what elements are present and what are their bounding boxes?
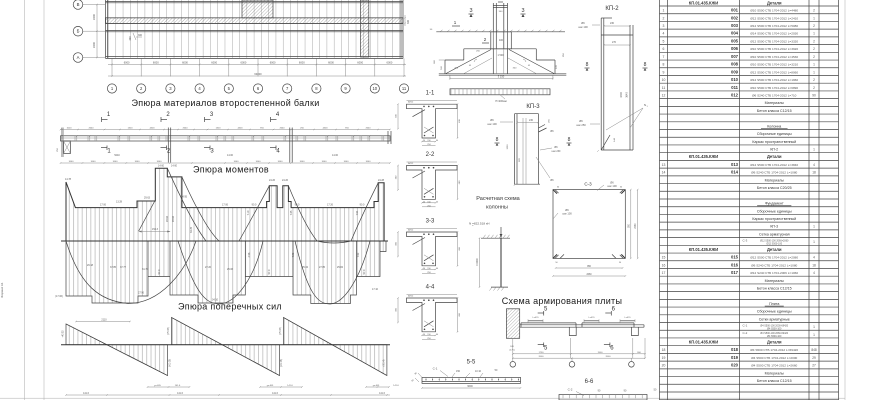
svg-text:90.0: 90.0: [295, 203, 300, 206]
svg-text:1040: 1040: [157, 161, 163, 163]
svg-text:шаг 100: шаг 100: [562, 212, 572, 216]
svg-text:1040: 1040: [322, 161, 328, 163]
svg-text:90.0: 90.0: [360, 203, 365, 206]
svg-text:2: 2: [813, 39, 815, 43]
svg-text:2: 2: [813, 47, 815, 51]
svg-text:Бетон класса С12/15: Бетон класса С12/15: [757, 286, 792, 290]
svg-text:1040: 1040: [256, 161, 262, 163]
svg-text:010: 010: [731, 77, 739, 82]
svg-text:Эпюра моментов: Эпюра моментов: [193, 165, 269, 175]
svg-text:Ø6: Ø6: [610, 181, 614, 185]
svg-text:3Ø12: 3Ø12: [408, 296, 414, 298]
svg-text:Материалы: Материалы: [765, 178, 785, 182]
svg-text:3640: 3640: [626, 92, 629, 98]
svg-text:+43.52: +43.52: [63, 330, 65, 338]
svg-text:10: 10: [662, 78, 666, 82]
svg-text:7.92: 7.92: [292, 252, 295, 257]
svg-text:013: 013: [731, 162, 739, 167]
svg-text:4.58: 4.58: [248, 252, 251, 257]
svg-text:П=200мм: П=200мм: [495, 99, 506, 103]
svg-text:7.92: 7.92: [357, 252, 360, 257]
svg-text:Ø4 S500 СТБ 1704-2012 L=2000: Ø4 S500 СТБ 1704-2012 L=2000: [751, 356, 797, 360]
svg-text:97.0: 97.0: [363, 269, 366, 274]
svg-text:Ø4 S500-100: Ø4 S500-100: [767, 335, 782, 338]
svg-text:14.78: 14.78: [65, 178, 72, 181]
svg-text:Материалы: Материалы: [765, 371, 785, 375]
svg-text:8: 8: [663, 63, 665, 67]
svg-text:007: 007: [731, 54, 739, 59]
svg-text:Ø6 S240 СТБ 1704-2012 L=710: Ø6 S240 СТБ 1704-2012 L=710: [752, 93, 797, 97]
svg-text:11: 11: [402, 86, 407, 91]
svg-text:Ø6: Ø6: [490, 118, 494, 122]
svg-text:001: 001: [731, 8, 739, 13]
svg-text:уч.405: уч.405: [154, 385, 161, 387]
svg-text:уч.405: уч.405: [373, 385, 380, 387]
svg-text:3-3: 3-3: [426, 219, 435, 225]
svg-text:8: 8: [496, 137, 499, 143]
svg-text:Ø12 S500 СТБ 1704-2012 L=1960: Ø12 S500 СТБ 1704-2012 L=1960: [750, 78, 798, 82]
svg-text:С-3: С-3: [743, 238, 748, 242]
svg-text:15: 15: [662, 256, 666, 260]
svg-text:3: 3: [469, 8, 472, 14]
svg-text:(-61.4): (-61.4): [384, 359, 386, 366]
svg-text:64000: 64000: [254, 72, 262, 76]
svg-text:27.96: 27.96: [138, 292, 145, 295]
svg-text:Ø12 S500 СТБ 1704-2012 L=2410: Ø12 S500 СТБ 1704-2012 L=2410: [750, 16, 798, 20]
svg-text:4: 4: [663, 32, 665, 36]
svg-text:300: 300: [407, 19, 410, 24]
svg-text:Ø12 S240 СТБ 1704-2006 L=1060: Ø12 S240 СТБ 1704-2006 L=1060: [750, 271, 798, 275]
svg-text:8: 8: [568, 137, 571, 143]
svg-text:005: 005: [731, 38, 739, 43]
svg-text:18: 18: [662, 348, 666, 352]
svg-text:004: 004: [731, 31, 739, 36]
svg-text:26.18: 26.18: [87, 264, 94, 267]
svg-text:270: 270: [612, 41, 617, 44]
svg-text:Ø10 S500 СТБ 1704-2012 L=3920: Ø10 S500 СТБ 1704-2012 L=3920: [750, 47, 798, 51]
svg-text:Ø12 S500 СТБ 1704-2012 L=2080: Ø12 S500 СТБ 1704-2012 L=2080: [750, 256, 798, 260]
svg-text:150: 150: [456, 370, 461, 373]
svg-text:Ø4 S500 СТБ 1704-2012 L=69420: Ø4 S500 СТБ 1704-2012 L=69420: [750, 348, 798, 352]
svg-text:13: 13: [662, 163, 666, 167]
svg-text:Детали: Детали: [767, 154, 782, 159]
svg-text:2110: 2110: [101, 318, 107, 321]
svg-text:33.78: 33.78: [190, 226, 193, 233]
svg-text:шаг 100: шаг 100: [607, 184, 617, 188]
svg-text:141.6: 141.6: [272, 393, 278, 395]
svg-text:шаг 100: шаг 100: [487, 122, 497, 126]
svg-text:1040: 1040: [344, 161, 350, 163]
svg-text:27.20: 27.20: [205, 266, 212, 269]
svg-text:Ø4 S500 СТБ 1704-2012 L=2660: Ø4 S500 СТБ 1704-2012 L=2660: [751, 364, 797, 368]
svg-text:1: 1: [813, 325, 815, 329]
svg-text:1040: 1040: [366, 161, 372, 163]
svg-text:9: 9: [663, 70, 665, 74]
svg-text:37.85: 37.85: [110, 266, 117, 269]
svg-text:КП-2: КП-2: [770, 148, 778, 152]
svg-text:230: 230: [610, 22, 615, 25]
svg-text:Сборочные единицы: Сборочные единицы: [757, 209, 792, 213]
svg-text:3400: 3400: [92, 13, 96, 20]
svg-text:6000: 6000: [299, 61, 305, 65]
svg-text:Эпюра материалов второстепенно: Эпюра материалов второстепенной балки: [131, 98, 319, 108]
svg-text:шаг 250: шаг 250: [576, 123, 586, 127]
svg-text:(170): (170): [509, 350, 514, 352]
svg-text:17.26: 17.26: [327, 203, 334, 206]
svg-text:3Ø12: 3Ø12: [408, 102, 414, 104]
svg-text:24.26: 24.26: [282, 179, 289, 182]
svg-text:С-2: С-2: [743, 331, 748, 335]
svg-text:2: 2: [663, 16, 665, 20]
svg-text:154.3: 154.3: [152, 228, 159, 231]
svg-text:006: 006: [731, 46, 739, 51]
svg-text:Фундамент: Фундамент: [765, 202, 784, 206]
svg-text:14.95: 14.95: [181, 196, 188, 199]
svg-text:14.60: 14.60: [171, 165, 178, 168]
svg-text:008: 008: [731, 62, 739, 67]
svg-text:3400: 3400: [620, 92, 623, 98]
svg-text:11: 11: [662, 86, 666, 90]
svg-text:400: 400: [499, 39, 504, 42]
svg-text:(75.08): (75.08): [168, 327, 170, 335]
svg-text:016: 016: [731, 262, 739, 267]
svg-text:С-3: С-3: [584, 182, 592, 187]
svg-text:8: 8: [644, 62, 647, 68]
svg-text:6000: 6000: [270, 61, 276, 65]
svg-text:14.00: 14.00: [227, 154, 234, 157]
svg-text:4: 4: [813, 271, 815, 275]
svg-text:Ø12 S500 СТБ 1704-2012 L=8060: Ø12 S500 СТБ 1704-2012 L=8060: [750, 70, 798, 74]
svg-text:1-1: 1-1: [426, 91, 435, 97]
svg-text:Ø10 S500 СТБ 1704-2012 L=3210: Ø10 S500 СТБ 1704-2012 L=3210: [750, 63, 798, 67]
svg-text:Эпюра поперечных сил: Эпюра поперечных сил: [178, 302, 282, 312]
svg-text:1: 1: [813, 32, 815, 36]
svg-text:2-2: 2-2: [426, 152, 435, 158]
svg-text:300: 300: [138, 34, 143, 37]
svg-text:L=470: L=470: [625, 317, 632, 319]
svg-text:(-61.08): (-61.08): [169, 359, 171, 367]
svg-text:3Ø12: 3Ø12: [408, 163, 414, 165]
svg-text:1040: 1040: [91, 161, 97, 163]
svg-text:19: 19: [662, 356, 666, 360]
svg-text:015: 015: [731, 255, 739, 260]
svg-text:141.6: 141.6: [177, 393, 183, 395]
svg-text:2: 2: [813, 86, 815, 90]
svg-text:Ø14 S500 СТБ 1704-2012 L=2030: Ø14 S500 СТБ 1704-2012 L=2030: [750, 32, 798, 36]
svg-text:141.6: 141.6: [287, 385, 293, 387]
svg-text:5-5: 5-5: [467, 360, 476, 366]
svg-text:шаг 100: шаг 100: [578, 25, 588, 29]
svg-text:1320: 1320: [128, 128, 134, 130]
svg-text:10 10: 10 10: [475, 370, 482, 373]
svg-text:009: 009: [731, 69, 739, 74]
svg-text:4400: 4400: [150, 128, 156, 130]
svg-text:L=470: L=470: [533, 317, 540, 319]
svg-text:6000: 6000: [357, 61, 363, 65]
svg-text:Ø12 S500 СТБ 1704-2012 L=3320: Ø12 S500 СТБ 1704-2012 L=3320: [750, 39, 798, 43]
svg-text:Детали: Детали: [767, 247, 782, 252]
svg-text:Формат A1: Формат A1: [0, 282, 4, 297]
svg-text:25.34: 25.34: [302, 266, 309, 269]
svg-text:Ø6: Ø6: [565, 208, 569, 212]
svg-text:Бетон класса С12/15: Бетон класса С12/15: [757, 109, 792, 113]
svg-text:Ø4 S500-100: Ø4 S500-100: [767, 327, 782, 330]
svg-text:5240: 5240: [114, 154, 120, 157]
svg-text:018: 018: [731, 347, 739, 352]
svg-text:6000: 6000: [328, 61, 334, 65]
svg-text:1020: 1020: [67, 128, 73, 130]
svg-text:27: 27: [812, 364, 816, 368]
svg-text:Материалы: Материалы: [765, 279, 785, 283]
svg-text:014: 014: [731, 170, 739, 175]
svg-text:9600: 9600: [467, 385, 473, 388]
svg-text:6: 6: [663, 47, 665, 51]
svg-text:14: 14: [662, 171, 666, 175]
svg-text:Детали: Детали: [767, 340, 782, 345]
svg-text:уч.405: уч.405: [267, 385, 274, 387]
svg-text:Детали: Детали: [767, 1, 782, 6]
svg-text:КП-2: КП-2: [605, 6, 619, 12]
svg-text:6-6: 6-6: [585, 379, 594, 385]
svg-text:97.0: 97.0: [268, 269, 271, 274]
svg-text:Ø10 S500 СТБ 1704-2012 L=6890: Ø10 S500 СТБ 1704-2012 L=6890: [750, 86, 798, 90]
svg-text:300: 300: [129, 36, 132, 41]
svg-text:7.94: 7.94: [356, 210, 359, 215]
svg-text:29.63: 29.63: [166, 215, 169, 222]
svg-text:1: 1: [663, 9, 665, 13]
svg-text:4: 4: [813, 163, 815, 167]
svg-text:25.84: 25.84: [337, 266, 344, 269]
svg-text:1: 1: [813, 148, 815, 152]
svg-text:13.28: 13.28: [116, 201, 123, 204]
svg-text:С-2: С-2: [568, 388, 573, 392]
svg-text:16: 16: [662, 263, 666, 267]
svg-text:2640: 2640: [366, 128, 372, 130]
svg-text:Сборочные единицы: Сборочные единицы: [757, 132, 792, 136]
svg-text:l=3400: l=3400: [476, 258, 479, 266]
svg-text:1: 1: [813, 240, 815, 244]
svg-text:18: 18: [812, 263, 816, 267]
svg-text:(75.08): (75.08): [280, 327, 282, 335]
svg-text:3400: 3400: [92, 41, 96, 48]
svg-text:1: 1: [813, 225, 815, 229]
svg-text:КП-3: КП-3: [526, 104, 540, 110]
svg-text:Сетки арматурные: Сетки арматурные: [759, 317, 790, 321]
svg-text:2: 2: [813, 24, 815, 28]
svg-text:1500: 1500: [598, 352, 604, 354]
svg-text:С-1: С-1: [433, 367, 438, 371]
svg-text:Ø6: Ø6: [579, 119, 583, 123]
svg-text:3 150: 3 150: [498, 75, 505, 79]
svg-text:шаг 230: шаг 230: [552, 150, 561, 153]
svg-text:141.6: 141.6: [175, 385, 181, 387]
svg-text:2060: 2060: [635, 223, 637, 229]
svg-text:1: 1: [813, 70, 815, 74]
svg-text:1040: 1040: [278, 161, 284, 163]
svg-text:2640: 2640: [89, 128, 95, 130]
svg-text:141.6: 141.6: [393, 385, 399, 387]
svg-text:Б: Б: [77, 29, 80, 34]
svg-text:29: 29: [812, 356, 816, 360]
svg-text:3: 3: [521, 8, 524, 14]
svg-text:2000: 2000: [606, 356, 612, 358]
svg-text:019: 019: [731, 355, 739, 360]
svg-text:1320: 1320: [216, 128, 222, 130]
svg-text:1: 1: [813, 63, 815, 67]
svg-text:25.06: 25.06: [227, 268, 234, 271]
svg-text:Ø10 S500 СТБ 1704-2012 L=4530: Ø10 S500 СТБ 1704-2012 L=4530: [750, 55, 798, 59]
svg-text:2: 2: [813, 9, 815, 13]
svg-text:КП.01.435.КЖИ: КП.01.435.КЖИ: [689, 1, 718, 6]
svg-text:4400: 4400: [238, 128, 244, 130]
svg-text:012: 012: [731, 92, 739, 97]
svg-text:Ø6 S240 СТБ 1704-2012 L=1080: Ø6 S240 СТБ 1704-2012 L=1080: [751, 263, 797, 267]
svg-text:Плита: Плита: [769, 302, 779, 306]
svg-text:Бетон класса С12/15: Бетон класса С12/15: [757, 379, 792, 383]
svg-text:14.60: 14.60: [158, 165, 165, 168]
svg-text:27.85: 27.85: [319, 266, 326, 269]
svg-text:1040: 1040: [300, 161, 306, 163]
svg-text:Ø12 S500-100: Ø12 S500-100: [766, 243, 782, 246]
svg-text:6000: 6000: [211, 61, 217, 65]
svg-text:2640: 2640: [183, 128, 189, 130]
svg-text:020: 020: [731, 363, 739, 368]
svg-text:1300: 1300: [507, 144, 509, 150]
svg-text:37.77: 37.77: [120, 266, 127, 269]
svg-text:1040: 1040: [113, 161, 119, 163]
svg-text:Ø6: Ø6: [581, 21, 585, 25]
svg-text:003: 003: [731, 23, 739, 28]
svg-text:Каркас пространственный: Каркас пространственный: [752, 217, 796, 221]
svg-text:230: 230: [529, 119, 534, 122]
svg-text:18: 18: [812, 171, 816, 175]
svg-text:90.0: 90.0: [252, 203, 257, 206]
svg-text:6000: 6000: [124, 61, 130, 65]
svg-text:В: В: [77, 2, 80, 7]
svg-text:4-4: 4-4: [426, 285, 435, 291]
svg-text:Каркас пространственный: Каркас пространственный: [752, 140, 796, 144]
svg-text:002: 002: [731, 15, 739, 20]
svg-text:17.06: 17.06: [100, 203, 107, 206]
svg-text:1040: 1040: [69, 161, 75, 163]
svg-text:Материалы: Материалы: [765, 101, 785, 105]
svg-text:1: 1: [813, 333, 815, 337]
svg-text:1040: 1040: [234, 161, 240, 163]
svg-text:Бетон класса С20/25: Бетон класса С20/25: [757, 186, 792, 190]
svg-text:017: 017: [731, 270, 739, 275]
svg-text:011: 011: [731, 85, 738, 90]
svg-text:Сборочные единицы: Сборочные единицы: [757, 310, 792, 314]
svg-text:колонны: колонны: [486, 205, 508, 211]
svg-text:24.28: 24.28: [378, 179, 385, 182]
svg-text:Ø12 S500 СТБ 1704-2012 L=3840: Ø12 S500 СТБ 1704-2012 L=3840: [750, 163, 798, 167]
svg-text:141.6: 141.6: [83, 393, 89, 395]
svg-text:КП.01.435.КЖИ: КП.01.435.КЖИ: [689, 154, 718, 159]
svg-text:С-1: С-1: [743, 323, 748, 327]
svg-text:6000: 6000: [387, 61, 393, 65]
svg-text:Ø6 S240 СТБ 1704-2012 L=1080: Ø6 S240 СТБ 1704-2012 L=1080: [751, 171, 797, 175]
svg-text:КП.01.435.КЖИ: КП.01.435.КЖИ: [689, 340, 718, 345]
svg-text:2000: 2000: [539, 356, 545, 358]
svg-text:4: 4: [813, 256, 815, 260]
svg-text:(17.06): (17.06): [55, 295, 63, 298]
svg-text:3Ø12: 3Ø12: [408, 230, 414, 232]
svg-text:6000: 6000: [153, 61, 159, 65]
svg-text:12: 12: [662, 93, 666, 97]
svg-text:1040: 1040: [135, 161, 141, 163]
svg-text:2: 2: [813, 78, 815, 82]
svg-text:20: 20: [662, 364, 666, 368]
svg-text:1: 1: [813, 16, 815, 20]
svg-text:7.05: 7.05: [290, 210, 293, 215]
svg-text:31.70: 31.70: [142, 268, 149, 271]
svg-text:29.63: 29.63: [172, 215, 175, 222]
svg-text:2: 2: [813, 55, 815, 59]
svg-text:КП-3: КП-3: [770, 225, 778, 229]
svg-text:17: 17: [662, 271, 666, 275]
svg-text:L=470: L=470: [589, 317, 596, 319]
svg-text:29.63: 29.63: [144, 197, 151, 200]
svg-text:6000: 6000: [182, 61, 188, 65]
svg-text:14.00: 14.00: [332, 154, 339, 157]
svg-text:(-61.08): (-61.08): [281, 359, 283, 367]
svg-text:17.06: 17.06: [222, 203, 229, 206]
svg-text:97.0: 97.0: [158, 269, 161, 274]
svg-text:Схема армирования плиты: Схема армирования плиты: [502, 296, 623, 306]
svg-text:848: 848: [811, 348, 817, 352]
svg-text:10: 10: [372, 86, 377, 91]
svg-text:7.10: 7.10: [247, 210, 250, 215]
svg-text:КП.01.435.КЖИ: КП.01.435.КЖИ: [689, 247, 718, 252]
svg-text:Колонна: Колонна: [767, 124, 781, 128]
svg-text:17.10: 17.10: [372, 288, 379, 291]
svg-text:Сетка арматурная: Сетка арматурная: [759, 232, 790, 236]
svg-text:5: 5: [663, 39, 665, 43]
svg-text:141.6: 141.6: [379, 393, 385, 395]
svg-text:90: 90: [812, 93, 816, 97]
svg-text:2640: 2640: [280, 128, 286, 130]
svg-text:А: А: [77, 55, 80, 60]
svg-text:1 500: 1 500: [498, 54, 505, 57]
svg-text:6000: 6000: [241, 61, 247, 65]
svg-text:24.26: 24.26: [269, 179, 276, 182]
svg-text:3: 3: [663, 24, 665, 28]
svg-text:Ø10 S500 СТБ 1704-2012 L=4480: Ø10 S500 СТБ 1704-2012 L=4480: [750, 9, 798, 13]
svg-text:Ø12 S500 СТБ 1704-2012 L=5080: Ø12 S500 СТБ 1704-2012 L=5080: [750, 24, 798, 28]
svg-text:1730: 1730: [539, 352, 545, 354]
svg-text:Расчетная схема: Расчетная схема: [476, 196, 520, 202]
svg-text:4400: 4400: [323, 128, 329, 130]
svg-text:8: 8: [586, 62, 589, 68]
svg-text:7: 7: [663, 55, 665, 59]
svg-text:2060: 2060: [586, 274, 592, 276]
